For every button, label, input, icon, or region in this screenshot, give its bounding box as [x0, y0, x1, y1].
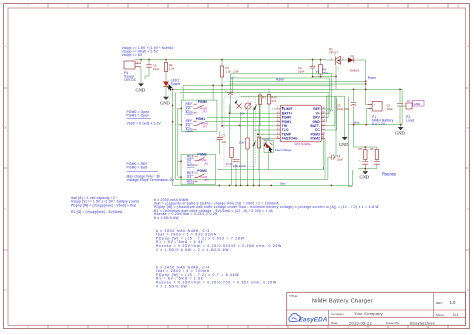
wire battery bottom rail: [348, 96, 402, 186]
svg-text:Load: Load: [406, 118, 414, 122]
svg-text:Auto: Auto: [186, 128, 193, 132]
svg-text:PGM0 = Batt: PGM0 = Batt: [127, 166, 148, 170]
svg-text:Your Company: Your Company: [354, 311, 383, 316]
note 2000mAh pack: [154, 198, 379, 220]
svg-text:Auto: Auto: [186, 111, 193, 115]
svg-text:1N4001: 1N4001: [350, 69, 360, 73]
svg-text:GND: GND: [160, 101, 170, 106]
svg-text:10uF: 10uF: [153, 67, 160, 71]
svg-text:10k: 10k: [239, 141, 244, 145]
IC U1 MAX712: [276, 105, 325, 146]
svg-text:Vsupp <= 6V: Vsupp <= 6V: [122, 53, 143, 57]
capacitor C7: [216, 131, 227, 185]
note Ibat formulas: [71, 196, 139, 214]
svg-text:6 x 1.2V: 6 x 1.2V: [372, 122, 386, 126]
svg-text:R6: R6: [370, 147, 374, 151]
svg-text:PGM1: PGM1: [196, 117, 206, 121]
jumper block JP2/JP3: [181, 153, 215, 185]
svg-text:10uF: 10uF: [387, 107, 394, 111]
wire Rsense net: [229, 60, 376, 89]
svg-text:15V DC: 15V DC: [124, 78, 137, 82]
Rsense bank R5 R6: [354, 125, 380, 172]
svg-text:1.2k - 1.6k: 1.2k - 1.6k: [226, 70, 240, 74]
title block: [287, 292, 466, 325]
svg-text:JP2: JP2: [204, 162, 209, 165]
note PGM settings: [127, 110, 162, 125]
EasyEDA logo: [289, 313, 328, 323]
svg-text:PGM2: PGM2: [310, 137, 320, 141]
capacitor C2: [328, 96, 345, 161]
svg-text:10uF: 10uF: [337, 157, 344, 161]
svg-text:REV:: REV:: [436, 301, 443, 305]
wire battery plus rail: [354, 89, 403, 124]
svg-text:V+: V+: [330, 109, 334, 113]
note PGM REF/Batt: [127, 162, 175, 182]
wire bundle left verticals: [173, 85, 214, 185]
svg-text:Rsen: Rsen: [368, 76, 376, 80]
connector P1 battery: [368, 102, 394, 126]
capacitor C5: [337, 100, 357, 112]
wire bundle horizontals: [173, 85, 403, 96]
resistor R2: [164, 60, 175, 82]
svg-text:10uF 50V: 10uF 50V: [337, 107, 349, 111]
svg-text:474: 474: [271, 99, 276, 103]
capacitor C4: [298, 60, 315, 77]
note Vsupp requirements: [122, 46, 173, 57]
wire base node: [313, 66, 337, 90]
svg-text:Rsense: Rsense: [382, 172, 397, 177]
capacitor C1 near V+: [225, 74, 332, 113]
connector P2 load: [402, 100, 424, 122]
ground under LED1: [160, 97, 170, 106]
thermistor RT1: [237, 103, 258, 116]
resistor R1: [220, 60, 239, 126]
wire P4 to rail and gnd: [140, 60, 142, 84]
ground under P4: [136, 83, 146, 92]
svg-text:PGM0: PGM0: [198, 100, 208, 104]
svg-text:PG40: PG40: [226, 163, 233, 166]
svg-text:6 x 1.5Ω/0.6W: 6 x 1.5Ω/0.6W: [154, 216, 179, 220]
svg-text:EasyEDA: EasyEDA: [299, 317, 328, 324]
resistor-capacitor corner in dashed box: [226, 148, 246, 186]
svg-text:Drawn By:: Drawn By:: [386, 321, 400, 325]
svg-text:Power: Power: [171, 82, 182, 86]
connector P4: [124, 61, 141, 82]
capacitor C3: [387, 90, 404, 125]
note 2800mAh C/4 pack: [156, 266, 277, 289]
wire bundle right verticals: [316, 70, 337, 180]
capacitor C6: [145, 60, 160, 80]
resistor R9: [319, 60, 328, 77]
diode D1: [348, 54, 366, 73]
svg-text:4 x 1.5Ω/0.6 6W = 2 x 1.8Ω/0.6: 4 x 1.5Ω/0.6 6W = 2 x 1.8Ω/0.6W: [156, 248, 229, 252]
svg-text:Fast Charge: Fast Charge: [275, 148, 292, 152]
svg-text:R1 [Ω] = (Vsupp(min) - 5V)/5mA: R1 [Ω] = (Vsupp(min) - 5V)/5mA: [71, 210, 123, 214]
svg-text:Vbatt = 6 cells x 1.2V: Vbatt = 6 cells x 1.2V: [127, 121, 162, 125]
svg-text:Bus: Bus: [354, 121, 360, 125]
LED LED1: [163, 79, 181, 97]
resistor R3: [258, 92, 266, 126]
svg-text:PGM2: PGM2: [197, 153, 207, 157]
LED LED2 fast charge: [263, 138, 292, 170]
svg-text:JP1: JP1: [203, 126, 208, 129]
wire bus bottom lines: [173, 157, 353, 185]
svg-text:2019-05-22: 2019-05-22: [349, 320, 372, 325]
svg-text:bboyadzhiev: bboyadzhiev: [410, 320, 435, 325]
ground battery section: [395, 125, 405, 136]
svg-text:10k: 10k: [240, 112, 245, 116]
svg-text:4 x 1.5Ω/0.6W: 4 x 1.5Ω/0.6W: [156, 284, 187, 288]
svg-text:Voltage Slope Termination On: Voltage Slope Termination On: [127, 178, 175, 182]
ground Rsense: [360, 171, 370, 179]
svg-text:GND: GND: [414, 102, 422, 106]
transistor Q1: [326, 47, 348, 71]
jumper block JP0/JP1: [181, 100, 217, 132]
label Rsense: [382, 172, 397, 177]
wires IC left pin stubs: [205, 109, 276, 138]
svg-text:1/1: 1/1: [453, 312, 459, 317]
svg-text:Bus: Bus: [281, 181, 287, 185]
svg-text:C7: C7: [222, 134, 226, 138]
svg-text:MAX712EPE+: MAX712EPE+: [295, 143, 312, 146]
svg-text:R3: R3: [262, 96, 266, 100]
svg-text:JP1: JP1: [203, 110, 208, 113]
svg-text:Auto: Auto: [187, 163, 194, 167]
resistor Rx by LED2: [257, 125, 267, 170]
dashed box temperature network: [224, 97, 255, 167]
svg-text:Sheet:: Sheet:: [436, 313, 445, 317]
wires dashed box risers: [222, 96, 259, 185]
svg-text:GND: GND: [395, 131, 405, 136]
svg-text:10k 22nF: 10k 22nF: [233, 164, 246, 168]
svg-text:Company:: Company:: [331, 312, 345, 316]
svg-text:GND: GND: [360, 175, 370, 180]
svg-text:GND: GND: [136, 87, 146, 92]
svg-text:R5: R5: [359, 147, 363, 151]
svg-text:FASTCHG: FASTCHG: [282, 137, 298, 141]
svg-text:TITLE:: TITLE:: [289, 294, 298, 298]
svg-text:PDpnp [W] = (Vsupp(max) - Vbat: PDpnp [W] = (Vsupp(max) - Vbatt) x Ibat: [71, 204, 136, 208]
svg-text:V+: V+: [316, 70, 320, 74]
svg-text:GND: GND: [339, 142, 349, 147]
resistor RT lower: [239, 110, 256, 185]
svg-text:Date:: Date:: [331, 321, 338, 325]
svg-text:1.2k: 1.2k: [169, 66, 175, 70]
ground near C2: [339, 137, 349, 147]
note 2800mAh C/3 pack: [156, 229, 282, 252]
svg-text:Auto: Auto: [187, 180, 194, 184]
svg-text:PGM1 = Open: PGM1 = Open: [127, 114, 150, 118]
junction dots: [140, 59, 401, 186]
svg-text:NiMH Battery Charger: NiMH Battery Charger: [312, 299, 373, 305]
svg-text:10uF: 10uF: [298, 70, 305, 74]
svg-text:1.0: 1.0: [450, 300, 456, 305]
svg-text:D1: D1: [351, 54, 355, 58]
wire Vsupp top rail: [135, 59, 326, 61]
resistor R10: [267, 89, 277, 140]
svg-text:JP3: JP3: [204, 179, 209, 182]
svg-text:150: 150: [322, 71, 327, 75]
svg-text:PGM3: PGM3: [197, 169, 207, 173]
svg-text:TIP127: TIP127: [329, 51, 338, 55]
